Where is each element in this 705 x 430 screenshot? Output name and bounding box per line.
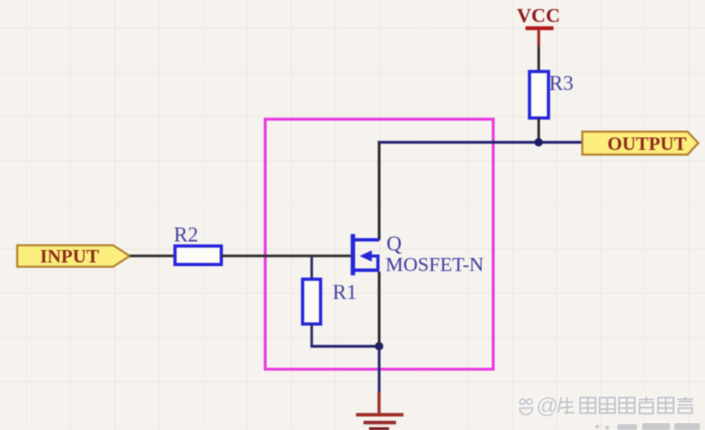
svg-text:MOSFET-N: MOSFET-N: [386, 254, 484, 276]
port INPUT: [17, 245, 130, 267]
power symbol VCC: [526, 26, 554, 46]
wire source to ground: [378, 346, 381, 393]
svg-text:R3: R3: [549, 71, 574, 95]
port OUTPUT: [582, 132, 698, 155]
svg-text:VCC: VCC: [517, 5, 560, 27]
resistor R1: [303, 279, 321, 324]
wire R2 to gate: [221, 255, 351, 258]
junction output node: [534, 138, 542, 146]
wire VCC to R3: [537, 46, 540, 72]
ground: [356, 393, 404, 430]
wire R3 to output node: [537, 118, 540, 142]
svg-text:R1: R1: [333, 280, 358, 304]
wire drain corner to OUTPUT port: [378, 141, 583, 144]
wire R1 to source node: [310, 324, 380, 348]
wire source riser: [378, 272, 381, 347]
resistor R3: [530, 72, 549, 119]
watermark: [520, 393, 701, 430]
svg-text:R2: R2: [174, 223, 199, 247]
wire drain riser: [378, 142, 381, 240]
resistor R2: [175, 246, 221, 265]
junction source node: [375, 342, 383, 350]
transistor Q MOSFET-N: [351, 234, 380, 275]
svg-text:OUTPUT: OUTPUT: [607, 134, 687, 155]
svg-text:@: @: [536, 393, 558, 418]
wire gate node to R1: [310, 256, 313, 279]
svg-text:INPUT: INPUT: [40, 247, 99, 268]
svg-text:Q: Q: [387, 232, 402, 256]
wire INPUT to R2: [130, 255, 175, 258]
highlight box: [265, 119, 493, 369]
